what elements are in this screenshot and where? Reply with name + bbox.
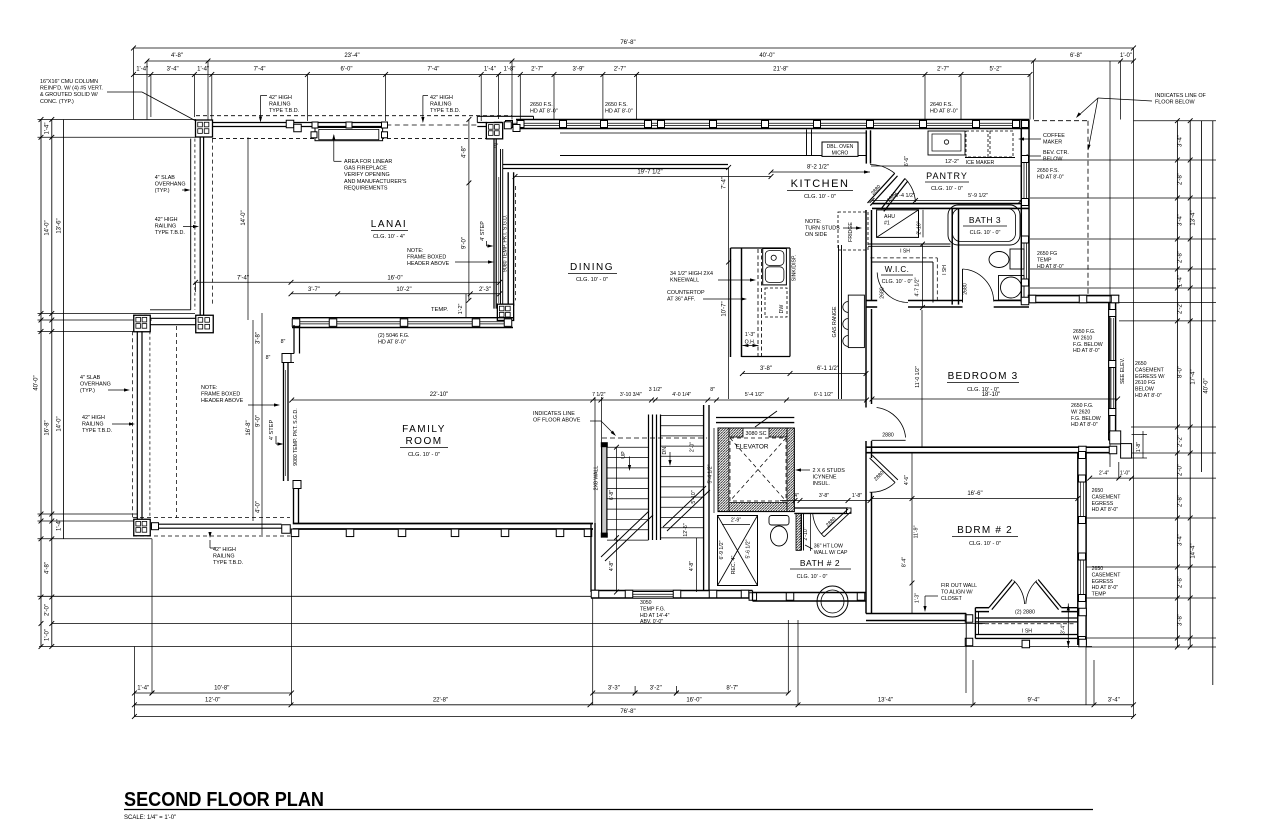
railing 42in high top — [212, 122, 386, 124]
svg-text:3'-4": 3'-4" — [1178, 135, 1184, 147]
svg-text:2680: 2680 — [963, 283, 969, 295]
svg-text:HD AT 8'-0": HD AT 8'-0" — [930, 109, 958, 115]
bath3 west wall — [951, 208, 953, 304]
svg-text:16'-6": 16'-6" — [967, 491, 982, 497]
svg-text:6'-8": 6'-8" — [609, 490, 615, 500]
svg-text:3'-8": 3'-8" — [819, 493, 829, 499]
svg-text:1'-4": 1'-4" — [484, 67, 496, 73]
railing posts top — [286, 120, 294, 128]
svg-text:3'-4": 3'-4" — [167, 67, 179, 73]
svg-text:HD AT 8'-0": HD AT 8'-0" — [1073, 348, 1100, 354]
svg-text:(2) 2880: (2) 2880 — [1015, 610, 1035, 616]
svg-text:16'-8": 16'-8" — [45, 420, 51, 435]
svg-text:TYPE T.B.D.: TYPE T.B.D. — [213, 560, 243, 566]
kitchen island / kneewall — [730, 248, 732, 357]
deck interior dims — [252, 320, 254, 521]
window glazing right wall — [1023, 162, 1025, 199]
svg-text:14'-4": 14'-4" — [1191, 543, 1197, 558]
stair treads left run — [607, 446, 649, 448]
svg-text:8'-0": 8'-0" — [1178, 366, 1184, 378]
svg-text:REQUIREMENTS: REQUIREMENTS — [344, 185, 388, 191]
svg-text:SINK/DISP.: SINK/DISP. — [792, 255, 798, 281]
elevator shaft hatched walls — [718, 428, 794, 512]
svg-text:HD AT 8'-0": HD AT 8'-0" — [605, 109, 633, 115]
svg-text:2'-0": 2'-0" — [690, 442, 696, 452]
svg-text:HD AT 8'-0": HD AT 8'-0" — [1037, 264, 1064, 270]
svg-text:3 1/2": 3 1/2" — [649, 387, 663, 393]
svg-text:HD AT 8'-0": HD AT 8'-0" — [530, 109, 558, 115]
svg-text:34 1/2" HIGH 2X4: 34 1/2" HIGH 2X4 — [670, 271, 713, 277]
kitchen sink top — [928, 131, 965, 155]
svg-text:(2) 5046 F.G.: (2) 5046 F.G. — [378, 333, 409, 339]
svg-text:HD AT 8'-0": HD AT 8'-0" — [1135, 393, 1162, 399]
svg-text:RAILING: RAILING — [82, 422, 104, 428]
svg-text:12'-2": 12'-2" — [945, 159, 959, 165]
svg-text:42" HIGH: 42" HIGH — [213, 547, 236, 553]
svg-text:2'-3": 2'-3" — [479, 287, 491, 293]
svg-text:NOTE:: NOTE: — [805, 219, 821, 225]
svg-text:8": 8" — [494, 144, 499, 150]
svg-text:1'-8": 1'-8" — [503, 67, 515, 73]
bath2/stair south wall w/ windows — [591, 590, 753, 592]
shelf wall below AHU — [868, 243, 951, 245]
svg-text:CLG. 10' - 0": CLG. 10' - 0" — [797, 574, 828, 580]
svg-text:BELOW: BELOW — [1043, 157, 1063, 163]
svg-text:14'-0": 14'-0" — [57, 416, 63, 431]
svg-text:LANAI: LANAI — [371, 219, 407, 230]
svg-text:7'-4": 7'-4" — [722, 177, 728, 189]
svg-text:W.I.C.: W.I.C. — [885, 265, 910, 274]
svg-text:CLG. 10' - 4": CLG. 10' - 4" — [373, 234, 405, 240]
svg-text:AND MANUFACTURER'S: AND MANUFACTURER'S — [344, 179, 407, 185]
svg-text:CLG. 10' - 0": CLG. 10' - 0" — [408, 452, 440, 458]
elevator door leaf — [755, 411, 777, 427]
svg-text:76'-8": 76'-8" — [620, 709, 635, 715]
svg-text:TYPE T.B.D.: TYPE T.B.D. — [155, 230, 185, 236]
svg-text:HD AT 8'-0": HD AT 8'-0" — [1071, 422, 1098, 428]
CMU column top-left — [196, 120, 213, 137]
svg-text:2'-0": 2'-0" — [1178, 464, 1184, 476]
svg-text:CASEMENT: CASEMENT — [1092, 494, 1122, 500]
svg-text:9080 TEMP. PKT. S.G.D.: 9080 TEMP. PKT. S.G.D. — [293, 408, 299, 465]
svg-text:7'-4": 7'-4" — [254, 67, 266, 73]
svg-text:2'-8": 2'-8" — [1178, 576, 1184, 588]
svg-text:3'-4": 3'-4" — [1061, 624, 1067, 634]
svg-text:TURN STUDS: TURN STUDS — [805, 226, 840, 232]
svg-text:3'-4": 3'-4" — [1178, 214, 1184, 226]
svg-text:F.G. BELOW: F.G. BELOW — [1073, 342, 1103, 348]
lanai interior dims — [247, 137, 249, 320]
bath3 toilet — [1010, 249, 1024, 269]
WIC dim 4-7 — [922, 244, 924, 307]
svg-text:DW: DW — [779, 305, 785, 314]
svg-text:2'-2": 2'-2" — [1178, 435, 1184, 447]
right tick lines — [1134, 120, 1217, 122]
bath3 door arc — [962, 269, 964, 303]
svg-text:5'-4 1/2": 5'-4 1/2" — [745, 392, 764, 398]
svg-text:2'-0": 2'-0" — [45, 604, 51, 616]
bath3 shower/lav — [999, 276, 1025, 301]
svg-text:CLG. 10' - 0": CLG. 10' - 0" — [970, 230, 1001, 236]
svg-text:10'-8": 10'-8" — [214, 686, 229, 692]
top counter — [560, 155, 866, 157]
svg-text:BATH # 2: BATH # 2 — [800, 558, 840, 568]
svg-text:COFFEE: COFFEE — [1043, 133, 1065, 139]
dbl oven — [822, 142, 858, 156]
svg-text:EGRESS: EGRESS — [1092, 579, 1114, 585]
dim 2-4 / 1-0 row right — [1090, 477, 1132, 479]
svg-text:4'-6": 4'-6" — [904, 475, 910, 485]
svg-text:CLG. 10' - 0": CLG. 10' - 0" — [931, 186, 963, 192]
svg-text:42" HIGH: 42" HIGH — [82, 415, 105, 421]
svg-text:CLG. 10' - 0": CLG. 10' - 0" — [804, 194, 836, 200]
svg-text:1'-4": 1'-4" — [45, 123, 51, 135]
kitchen-pantry wall — [865, 130, 867, 163]
svg-text:4'-8": 4'-8" — [171, 53, 183, 59]
svg-text:3'-9": 3'-9" — [572, 67, 584, 73]
svg-text:1'-4": 1'-4" — [1178, 275, 1184, 287]
svg-text:2'-2": 2'-2" — [1178, 302, 1184, 314]
16-6 dim — [872, 498, 1078, 500]
svg-text:1'-4": 1'-4" — [197, 67, 209, 73]
svg-text:1'-0": 1'-0" — [1120, 53, 1132, 59]
svg-text:CLG. 10' - 0": CLG. 10' - 0" — [576, 277, 608, 283]
svg-text:2650 FG: 2650 FG — [1037, 251, 1057, 257]
svg-text:1'-0": 1'-0" — [45, 629, 51, 641]
svg-text:UP: UP — [621, 451, 627, 459]
svg-text:KITCHEN: KITCHEN — [791, 178, 850, 190]
svg-text:I SH: I SH — [942, 265, 948, 275]
svg-text:FRAME BOXED: FRAME BOXED — [201, 392, 240, 398]
svg-text:SEE ELEV.: SEE ELEV. — [1120, 358, 1126, 384]
svg-text:4'-8": 4'-8" — [689, 561, 695, 571]
hall door to bath2 — [847, 508, 852, 513]
svg-text:11'-0 1/2": 11'-0 1/2" — [915, 366, 921, 388]
svg-text:11'-9": 11'-9" — [914, 525, 920, 538]
svg-text:MICRO: MICRO — [832, 151, 849, 157]
svg-text:16'-0": 16'-0" — [686, 697, 701, 703]
svg-text:RAILING: RAILING — [213, 554, 235, 560]
svg-text:2'-8": 2'-8" — [1178, 173, 1184, 185]
svg-text:42" HIGH: 42" HIGH — [430, 95, 453, 101]
svg-text:F.G. BELOW: F.G. BELOW — [1071, 416, 1101, 422]
svg-text:3'-10 3/4": 3'-10 3/4" — [620, 392, 642, 398]
svg-text:6'-0": 6'-0" — [341, 67, 353, 73]
svg-text:TYPE T.B.D.: TYPE T.B.D. — [430, 108, 460, 114]
svg-text:TEMP: TEMP — [1037, 257, 1052, 263]
svg-text:KNEEWALL: KNEEWALL — [670, 278, 699, 284]
svg-text:HD AT 8'-0": HD AT 8'-0" — [378, 340, 406, 346]
svg-text:9'-0": 9'-0" — [256, 415, 262, 427]
svg-text:4": 4" — [794, 493, 799, 499]
svg-text:2610 FG: 2610 FG — [1135, 380, 1155, 386]
raised corner band — [477, 115, 533, 117]
shower — [718, 516, 758, 586]
svg-text:3'-4": 3'-4" — [1108, 697, 1120, 703]
svg-text:HD AT 14'-4": HD AT 14'-4" — [640, 613, 670, 619]
svg-text:PANTRY: PANTRY — [926, 171, 968, 181]
bath2 tub circle — [817, 586, 848, 617]
svg-text:2650: 2650 — [1092, 488, 1104, 494]
svg-text:#1: #1 — [884, 221, 890, 227]
svg-text:6'-1 1/2": 6'-1 1/2" — [817, 366, 839, 372]
pantry door B 2680 diagonal — [881, 179, 905, 210]
svg-text:2650 F.S.: 2650 F.S. — [605, 102, 628, 108]
svg-text:23'-4": 23'-4" — [344, 53, 359, 59]
svg-text:13'-6": 13'-6" — [57, 218, 63, 233]
lanai 7-4 dim at left — [195, 282, 197, 292]
oven tall cabinet side — [806, 130, 808, 156]
svg-text:8'-4": 8'-4" — [902, 557, 908, 567]
hall north wall below elevator — [794, 507, 848, 509]
svg-text:2650 F.G.: 2650 F.G. — [1073, 329, 1096, 335]
lower west rail — [132, 331, 134, 517]
svg-text:ON SIDE: ON SIDE — [805, 232, 828, 238]
svg-text:7'-4": 7'-4" — [237, 275, 249, 281]
bdrm2 west wall — [865, 458, 867, 614]
svg-text:16"X16" CMU COLUMN: 16"X16" CMU COLUMN — [40, 79, 98, 85]
svg-text:CASEMENT: CASEMENT — [1135, 367, 1165, 373]
bottom deck walkway — [133, 517, 290, 519]
svg-text:(TYP.): (TYP.) — [155, 188, 170, 194]
svg-text:GAS FIREPLACE: GAS FIREPLACE — [344, 166, 387, 172]
CMU column dining SW — [497, 304, 513, 320]
svg-text:3'-4": 3'-4" — [1178, 534, 1184, 546]
svg-text:4" SLAB: 4" SLAB — [80, 375, 101, 381]
svg-text:8": 8" — [266, 355, 271, 361]
kitchen east counter — [838, 245, 840, 399]
svg-text:6'-6": 6'-6" — [904, 156, 910, 166]
svg-text:1'-8": 1'-8" — [1136, 442, 1142, 452]
svg-text:DN.: DN. — [662, 445, 668, 454]
svg-text:2 X 6 STUDS: 2 X 6 STUDS — [813, 468, 846, 474]
svg-text:14'-0": 14'-0" — [45, 220, 51, 235]
svg-text:WALL W/ CAP: WALL W/ CAP — [814, 550, 848, 556]
svg-text:2650: 2650 — [1092, 566, 1104, 572]
upper west rail — [190, 139, 192, 310]
svg-text:TO ALIGN W/: TO ALIGN W/ — [941, 589, 973, 595]
svg-text:4'-0 1/4": 4'-0 1/4" — [672, 392, 691, 398]
svg-text:8": 8" — [710, 387, 715, 393]
svg-text:7 1/2": 7 1/2" — [592, 392, 606, 398]
svg-text:1'-2": 1'-2" — [458, 304, 464, 315]
svg-text:VERIFY OPENING: VERIFY OPENING — [344, 172, 390, 178]
dishwasher — [765, 288, 787, 317]
svg-text:AHU: AHU — [884, 214, 895, 220]
svg-text:2'-7": 2'-7" — [614, 67, 626, 73]
svg-text:6'-1 1/2": 6'-1 1/2" — [814, 392, 833, 398]
svg-text:22'-8": 22'-8" — [433, 697, 448, 703]
stair east wall — [703, 405, 705, 591]
bay walls / window seat — [975, 607, 989, 609]
svg-text:BEV. CTR.: BEV. CTR. — [1043, 150, 1069, 156]
svg-text:13'-4": 13'-4" — [1191, 210, 1197, 225]
svg-text:HEADER ABOVE: HEADER ABOVE — [201, 398, 244, 404]
svg-text:5'-9 1/2": 5'-9 1/2" — [968, 193, 988, 199]
svg-text:3050: 3050 — [640, 600, 652, 606]
svg-text:4'-8": 4'-8" — [462, 146, 468, 158]
svg-text:9080 TEMP. PKT. S.G.D.: 9080 TEMP. PKT. S.G.D. — [502, 215, 508, 272]
svg-text:HD AT 8'-0": HD AT 8'-0" — [1037, 174, 1064, 180]
svg-text:16'-8": 16'-8" — [246, 420, 252, 435]
low wall 36in hatched — [796, 513, 801, 550]
svg-text:NOTE:: NOTE: — [201, 385, 217, 391]
svg-text:2880: 2880 — [882, 433, 894, 439]
svg-text:5'-10": 5'-10" — [691, 490, 697, 503]
svg-text:3'-8": 3'-8" — [760, 366, 772, 372]
svg-text:GAS RANGE: GAS RANGE — [832, 306, 838, 337]
svg-text:INDICATES LINE: INDICATES LINE — [533, 411, 575, 417]
svg-text:HEADER ABOVE: HEADER ABOVE — [407, 261, 450, 267]
svg-text:CLOSET: CLOSET — [941, 596, 963, 602]
svg-text:CLG. 10' - 0": CLG. 10' - 0" — [882, 279, 913, 285]
svg-text:42" HIGH: 42" HIGH — [155, 217, 178, 223]
svg-text:42" HIGH: 42" HIGH — [269, 95, 292, 101]
pantry dims — [871, 165, 1021, 167]
svg-text:2650 F.G.: 2650 F.G. — [1071, 403, 1094, 409]
stair interior v dims — [616, 447, 618, 592]
svg-text:ROOM: ROOM — [405, 436, 442, 447]
svg-text:(TYP.): (TYP.) — [80, 388, 95, 394]
bath2 south wall — [753, 592, 867, 594]
svg-text:12'-6": 12'-6" — [683, 523, 689, 536]
svg-text:ICE MAKER: ICE MAKER — [966, 160, 995, 166]
svg-text:INSUL.: INSUL. — [813, 481, 830, 487]
svg-text:19'-7 1/2": 19'-7 1/2" — [637, 170, 662, 176]
pocket sgd wall — [507, 172, 509, 306]
svg-text:40'-0": 40'-0" — [1204, 378, 1210, 393]
svg-text:3'-8": 3'-8" — [256, 332, 262, 344]
svg-text:OF FLOOR ABOVE: OF FLOOR ABOVE — [533, 418, 581, 424]
bedroom3 door — [872, 439, 906, 441]
svg-text:EGRESS: EGRESS — [1092, 501, 1114, 507]
svg-text:4'-7 1/2": 4'-7 1/2" — [915, 277, 921, 296]
svg-text:6'-8": 6'-8" — [1070, 53, 1082, 59]
svg-text:& GROUTED SOLID W/: & GROUTED SOLID W/ — [40, 92, 98, 98]
svg-text:2'-10": 2'-10" — [917, 221, 923, 234]
kitchen bottom dims — [742, 373, 866, 375]
lanai bottom dim rows — [196, 281, 500, 283]
bottom dim extension lines — [133, 647, 135, 717]
svg-text:5'-4 1/2": 5'-4 1/2" — [708, 464, 714, 483]
pantry door A 2880 diagonal — [868, 173, 895, 203]
svg-text:RAILING: RAILING — [430, 102, 452, 108]
svg-text:4'-8": 4'-8" — [45, 562, 51, 574]
svg-text:1'-4": 1'-4" — [137, 686, 149, 692]
french doors (2)2880 — [989, 580, 1012, 608]
svg-text:FAMILY: FAMILY — [402, 424, 446, 435]
svg-text:3'-7": 3'-7" — [308, 287, 320, 293]
svg-text:9'-0": 9'-0" — [462, 237, 468, 249]
svg-text:COUNTERTOP: COUNTERTOP — [667, 290, 705, 296]
svg-text:BDRM # 2: BDRM # 2 — [957, 525, 1013, 536]
svg-text:BELOW: BELOW — [1135, 387, 1154, 393]
svg-text:18'-10": 18'-10" — [982, 392, 1001, 398]
AHU closet — [877, 210, 919, 238]
svg-text:FRIDGE: FRIDGE — [848, 222, 854, 242]
svg-text:2650: 2650 — [1135, 361, 1147, 367]
svg-text:REC. 4": REC. 4" — [731, 556, 737, 575]
dim 22-10 line — [292, 399, 867, 401]
svg-text:76'-8": 76'-8" — [620, 40, 635, 46]
svg-text:2'-7": 2'-7" — [531, 67, 543, 73]
wall jog bdrm2-west to bay — [866, 613, 966, 615]
svg-text:2'-8": 2'-8" — [1178, 495, 1184, 507]
svg-text:OVERHANG: OVERHANG — [80, 382, 111, 388]
svg-text:21'-8": 21'-8" — [773, 67, 788, 73]
left tick lines — [38, 119, 197, 121]
svg-text:SECOND FLOOR PLAN: SECOND FLOOR PLAN — [124, 788, 324, 811]
svg-text:AREA FOR LINEAR: AREA FOR LINEAR — [344, 159, 392, 165]
svg-text:SCALE: 1/4" = 1'-0": SCALE: 1/4" = 1'-0" — [124, 815, 176, 821]
svg-text:NOTE:: NOTE: — [407, 248, 423, 254]
svg-text:1'-3": 1'-3" — [745, 332, 755, 338]
svg-text:HD AT 8'-0": HD AT 8'-0" — [1092, 507, 1119, 513]
svg-text:2'-10": 2'-10" — [803, 527, 809, 540]
svg-text:FIR OUT WALL: FIR OUT WALL — [941, 583, 977, 589]
svg-text:TEMP F.G.: TEMP F.G. — [640, 606, 665, 612]
svg-text:17'-4": 17'-4" — [1191, 369, 1197, 384]
svg-text:10'-2": 10'-2" — [396, 287, 411, 293]
svg-text:CASEMENT: CASEMENT — [1092, 572, 1122, 578]
svg-text:8'-2 1/2": 8'-2 1/2" — [807, 165, 829, 171]
svg-text:AT 36" AFF.: AT 36" AFF. — [667, 297, 695, 303]
svg-text:1'-4": 1'-4" — [136, 67, 148, 73]
svg-text:12'-0": 12'-0" — [205, 697, 220, 703]
svg-text:CLG. 10' - 0": CLG. 10' - 0" — [969, 541, 1001, 547]
svg-text:9'-4": 9'-4" — [1028, 697, 1040, 703]
svg-text:MAKER: MAKER — [1043, 140, 1062, 146]
2x8 guard wall — [602, 443, 607, 537]
stair center stringers — [648, 415, 650, 541]
svg-text:4'-0": 4'-0" — [256, 501, 262, 513]
stair treads right run — [661, 415, 704, 417]
svg-text:2'-4": 2'-4" — [1099, 471, 1109, 477]
svg-text:I SH: I SH — [900, 249, 910, 255]
svg-text:7'-4": 7'-4" — [427, 67, 439, 73]
svg-text:40'-0": 40'-0" — [34, 375, 40, 390]
svg-text:FLOOR BELOW: FLOOR BELOW — [1155, 100, 1195, 106]
kneewall vertical dim — [728, 168, 730, 400]
svg-text:ABV. 0'-0": ABV. 0'-0" — [640, 619, 663, 625]
svg-text:BEDROOM 3: BEDROOM 3 — [948, 371, 1019, 382]
svg-text:10'-7": 10'-7" — [722, 301, 728, 316]
jog at mid deck — [150, 309, 191, 311]
svg-text:4'-8": 4'-8" — [609, 561, 615, 571]
svg-text:HD AT 8'-0": HD AT 8'-0" — [1092, 585, 1119, 591]
svg-text:2640 F.S.: 2640 F.S. — [930, 102, 953, 108]
stair west wall — [590, 523, 592, 592]
svg-text:REINF'D. W/ (4) #5 VERT.: REINF'D. W/ (4) #5 VERT. — [40, 86, 103, 92]
svg-text:TYPE T.B.D.: TYPE T.B.D. — [82, 428, 112, 434]
svg-text:ICYNENE: ICYNENE — [813, 475, 837, 481]
bdrm2 swing door diagonal — [870, 458, 896, 483]
svg-text:W/ 2620: W/ 2620 — [1071, 409, 1090, 415]
svg-text:6'-9 1/2": 6'-9 1/2" — [719, 540, 725, 559]
svg-text:14'-0": 14'-0" — [241, 210, 247, 225]
bdrm2 east wall w/ casements — [1077, 453, 1079, 645]
svg-text:2650 F.S.: 2650 F.S. — [1037, 168, 1059, 174]
bay 3-4 dim — [1067, 604, 1069, 649]
svg-text:4' STEP: 4' STEP — [269, 420, 275, 441]
svg-text:2650 F.S.: 2650 F.S. — [530, 102, 553, 108]
window seat band — [975, 617, 1077, 619]
svg-text:3'-8": 3'-8" — [1178, 614, 1184, 626]
svg-text:CONC. (TYP.): CONC. (TYP.) — [40, 99, 74, 105]
bedroom3 west wall — [865, 210, 867, 408]
svg-text:TEMP.: TEMP. — [431, 307, 448, 313]
svg-text:40'-0": 40'-0" — [759, 53, 774, 59]
